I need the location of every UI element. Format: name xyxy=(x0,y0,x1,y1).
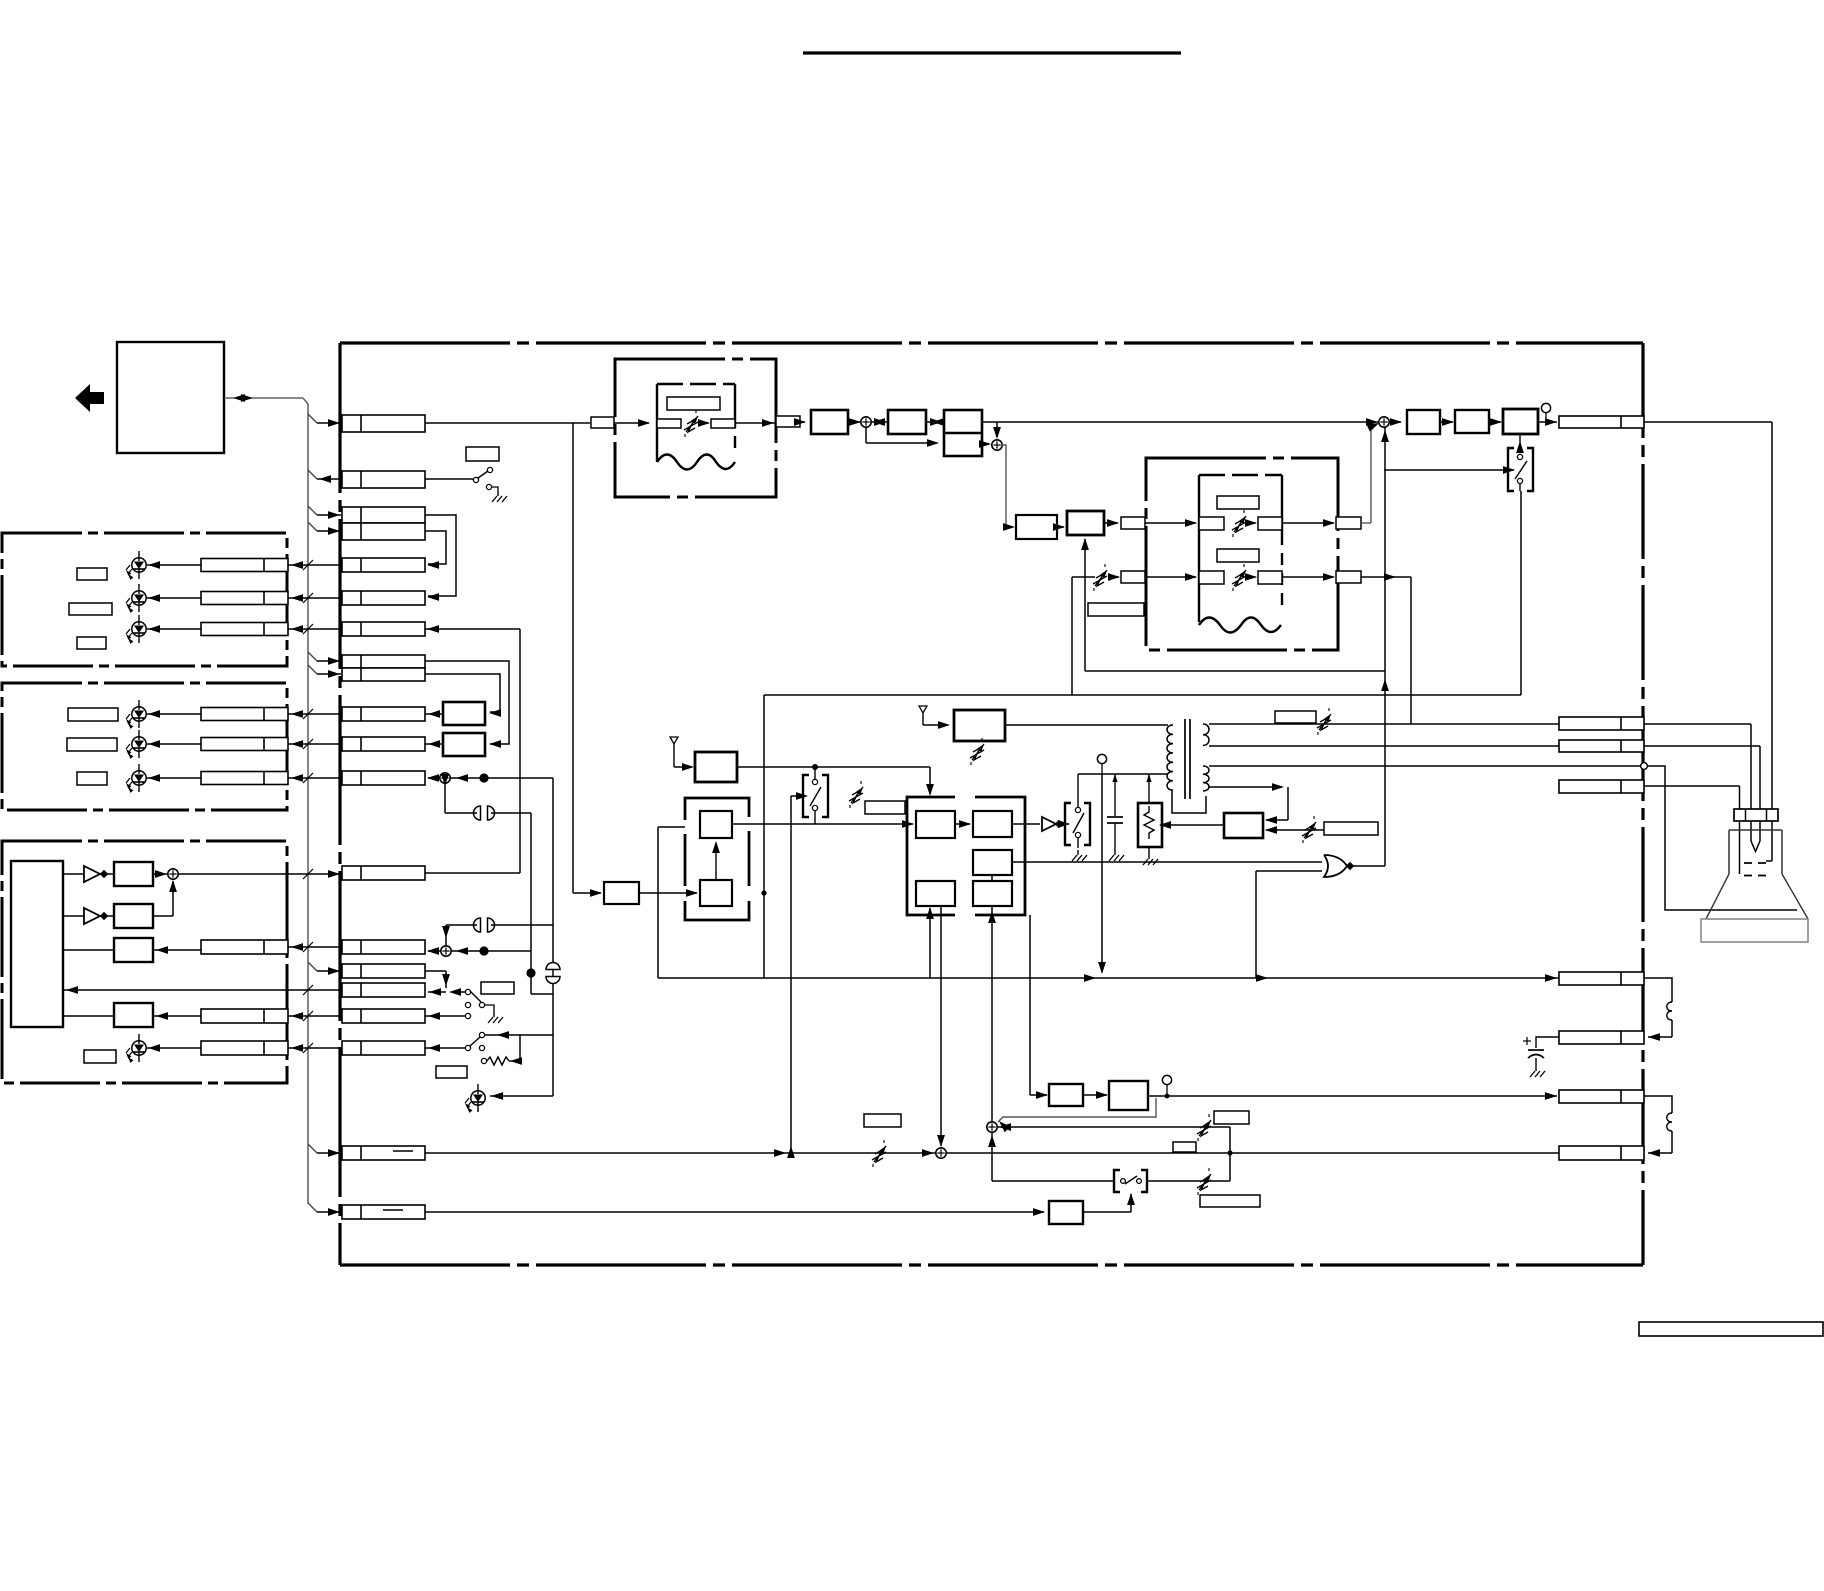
wire into tuner2 row1 xyxy=(1145,522,1196,524)
attenuator AT5 xyxy=(1319,714,1331,730)
attenuator AT4 xyxy=(1304,822,1316,838)
connector J13 xyxy=(342,964,425,978)
antenna ANT2 xyxy=(919,706,927,713)
connector J9 xyxy=(342,737,425,751)
connector J7a xyxy=(342,655,425,668)
wire row2 to RF line xyxy=(1361,576,1411,578)
connector J18 xyxy=(342,1205,425,1219)
wire into tuner2 row2 xyxy=(1145,576,1196,578)
left board1 connector P2 xyxy=(201,592,288,605)
wire S8 in2 xyxy=(998,1126,1230,1128)
wire SW7 right xyxy=(1147,1180,1230,1182)
choke coil L2 xyxy=(1667,1113,1672,1131)
IF amp box xyxy=(811,410,848,434)
connector CN-V2 xyxy=(1559,1146,1644,1160)
S8 label box xyxy=(1214,1111,1249,1124)
v-out box 1 xyxy=(1049,1084,1083,1106)
bus jog into J17 xyxy=(308,1144,317,1153)
left board2 connector P5 xyxy=(201,738,288,751)
wire video out to J-CRT xyxy=(1538,421,1557,423)
block box B4 xyxy=(114,1003,153,1027)
AFT label box xyxy=(1088,603,1144,616)
wire LED D1 xyxy=(147,564,201,566)
H out box xyxy=(1455,410,1489,433)
SW5 ground xyxy=(493,1012,495,1017)
wire S8 bottom xyxy=(991,1133,993,1181)
left board2 label L5 xyxy=(67,738,117,751)
tuner2 variable cap VC3 xyxy=(1234,570,1246,586)
bus jog into J3b xyxy=(308,522,317,531)
left board2 connector P4 xyxy=(201,708,288,721)
attenuator AT3 xyxy=(851,787,863,803)
wire 3DNR out xyxy=(1104,522,1118,524)
wire board edge row 778 xyxy=(288,777,342,779)
bus jog into J7a xyxy=(308,652,317,661)
audio riser 1 xyxy=(552,778,554,1096)
off-page arrow xyxy=(75,384,104,412)
audio amp box AU1 xyxy=(443,702,485,725)
flyback core xyxy=(1184,719,1186,799)
wire B1 to sum xyxy=(153,873,167,875)
sum node S7 xyxy=(936,1148,946,1158)
wire into J14 xyxy=(428,991,446,993)
CRT funnel xyxy=(1706,874,1729,919)
RF amp box xyxy=(695,752,737,782)
tuner1 variable cap VC1 xyxy=(686,416,698,432)
tuner2 outline xyxy=(1146,458,1338,650)
connector J1 xyxy=(342,415,425,432)
block box B2 xyxy=(114,904,153,928)
antenna ANT1 xyxy=(670,737,678,744)
CRT grid dashes xyxy=(1744,862,1771,864)
AV switch SW2 xyxy=(1065,803,1071,845)
sandcastle line xyxy=(764,694,1521,696)
bottom right label box xyxy=(1639,1322,1823,1336)
connector J16 xyxy=(342,1041,425,1055)
IC apc box xyxy=(973,881,1012,906)
audio amp box AU2 xyxy=(443,733,485,756)
connector J11 xyxy=(342,866,425,880)
HV node on border xyxy=(1641,763,1648,770)
wire J3b loop xyxy=(425,531,446,564)
wire J15 row xyxy=(288,1015,342,1017)
wire S3 to comb xyxy=(1002,445,1013,527)
wire board edge row 744 xyxy=(288,743,342,745)
connector J6 xyxy=(342,622,425,636)
main board border bottom xyxy=(340,1263,1643,1266)
wire LED D2 xyxy=(147,597,201,599)
sum node S2 xyxy=(861,417,871,427)
wire TR to buffer xyxy=(1012,823,1040,825)
wire S6 to J12 xyxy=(428,950,441,952)
tuner2 mixer box row2 xyxy=(1199,571,1224,584)
PLL vco box xyxy=(700,811,732,838)
wire TL-TR xyxy=(955,823,970,825)
wire comb to 3D xyxy=(1057,526,1064,528)
comb filter box xyxy=(1016,515,1057,539)
wire to H out xyxy=(1440,421,1453,423)
main board border left xyxy=(338,343,341,1265)
bus wire from external box xyxy=(224,397,303,399)
sum node S3 xyxy=(992,440,1002,450)
bus jog into J7b xyxy=(308,665,317,674)
wire LED D6 xyxy=(147,777,201,779)
wire B2 to S1 xyxy=(153,915,173,917)
left board1 label L2 xyxy=(69,603,112,615)
electrolytic cap C2 xyxy=(1536,1037,1559,1048)
wire SW6 feed xyxy=(485,1034,520,1036)
connector J18 polarity tick xyxy=(383,1209,403,1211)
node dot D-audio xyxy=(479,773,488,782)
tuner2 osc box row1 xyxy=(1258,517,1282,530)
wire controller to A2 xyxy=(63,915,72,917)
SAW filter box xyxy=(604,882,639,904)
CRT electron gun xyxy=(1750,821,1752,841)
wire wiper xyxy=(1160,824,1224,826)
AT4 label box xyxy=(1324,822,1378,835)
title underline xyxy=(803,51,1181,54)
wire to CRT cathode xyxy=(1644,421,1772,423)
wire chroma out to S3 xyxy=(982,443,989,445)
left board3 connector P9 xyxy=(201,1041,288,1055)
wire det to Y/C xyxy=(926,421,944,423)
cap C2 ground xyxy=(1535,1066,1537,1071)
wire J1 to tuner input xyxy=(425,422,590,424)
bus jog into J18 xyxy=(308,1203,317,1212)
variable res feed row2 xyxy=(1072,576,1095,578)
LED D2 xyxy=(132,591,146,605)
H-AFC line xyxy=(425,1152,1559,1154)
LED D4 xyxy=(132,707,146,721)
ABL box xyxy=(1224,813,1263,838)
function switch SW5 xyxy=(465,989,470,994)
sum node S8 xyxy=(987,1122,997,1132)
LED D3 xyxy=(132,622,146,636)
SW1 ground xyxy=(497,491,499,496)
flyback primary coil xyxy=(1167,725,1173,790)
wire LED D5 xyxy=(147,743,201,745)
left board 3 outline xyxy=(2,841,287,1083)
wire J16 row xyxy=(288,1047,342,1049)
LED D5 xyxy=(132,737,146,751)
OR gate G1 xyxy=(1324,855,1347,877)
wire LED D7 xyxy=(147,1047,201,1049)
tuner1 inner module xyxy=(656,384,658,462)
connector J8 xyxy=(342,707,425,721)
connector tuner2 out2 xyxy=(1336,571,1361,583)
video buffer A3 xyxy=(1042,817,1056,831)
service switch SW1 label xyxy=(466,447,499,461)
wire S4 to H-driver xyxy=(1390,421,1401,423)
IC chroma box xyxy=(973,811,1012,837)
tuner2 label row1 xyxy=(1217,496,1259,509)
connector tuner1 in xyxy=(591,417,614,428)
G2 wire xyxy=(1209,786,1282,788)
connector J15 xyxy=(342,1009,425,1023)
wire J12 row xyxy=(288,946,342,948)
V-ramp box xyxy=(1049,1201,1083,1224)
wire G1 to CRT xyxy=(1644,785,1740,787)
buffer amp A2 xyxy=(84,908,100,924)
IC sync box xyxy=(973,850,1012,875)
connector J2 xyxy=(342,471,425,488)
wire AFC to IC agc xyxy=(929,908,931,978)
mute switch SW3 xyxy=(1508,448,1514,491)
vco feedback gray xyxy=(998,1098,1156,1122)
PLL div box xyxy=(700,880,732,906)
left board 1 outline xyxy=(2,533,287,666)
connector J12 xyxy=(342,940,425,954)
wire SW7 left xyxy=(992,1180,1114,1182)
test point TP1 xyxy=(1541,403,1550,412)
reset switch SW6 xyxy=(465,1045,470,1050)
tuner1 osc box xyxy=(711,419,735,428)
wire RF conv out xyxy=(1005,724,1168,726)
left board3 label L7 xyxy=(84,1050,116,1063)
jungle IC outline xyxy=(907,797,955,830)
main board border right xyxy=(1641,343,1644,1265)
wire board edge row 629 xyxy=(288,628,342,630)
node dot D3 xyxy=(526,968,535,977)
tuner1 inner label xyxy=(667,397,720,410)
connector J3a xyxy=(342,507,425,523)
left board1 connector P1 xyxy=(201,559,288,572)
bus jog into J13 xyxy=(308,962,317,971)
HV wire xyxy=(1209,765,1641,767)
wire J11 to riser xyxy=(425,872,520,874)
block box B3 xyxy=(114,938,153,962)
connector CN-D2 xyxy=(1559,1031,1644,1044)
connector CN-H1 xyxy=(1559,717,1644,730)
heater label box xyxy=(1275,711,1316,723)
external box xyxy=(117,342,224,453)
left board1 label L1 xyxy=(77,568,107,580)
service switch SW1 xyxy=(425,478,473,480)
video out box xyxy=(1503,409,1538,434)
SW2 ground xyxy=(1077,850,1079,855)
sum node S6 xyxy=(441,946,451,956)
wire vramp to SW7 xyxy=(1083,1211,1131,1213)
flyback secondary 1 xyxy=(1203,724,1209,745)
connector CN-V1 xyxy=(1559,1090,1644,1103)
video det box xyxy=(888,410,926,434)
attenuator AT9 xyxy=(1199,1174,1211,1190)
left board3 connector P7 xyxy=(201,940,288,954)
wire ABL in2 xyxy=(1266,829,1324,831)
deflection loop 2 xyxy=(1644,1096,1672,1113)
connector tuner1 out xyxy=(776,416,800,427)
heater wire 2 xyxy=(1209,745,1559,747)
flyback primary return xyxy=(1172,790,1206,813)
connector J14 xyxy=(342,983,425,997)
wire tuner2 row1 out xyxy=(1282,522,1334,524)
node N2 xyxy=(996,422,998,437)
band switch SW4 xyxy=(803,775,809,817)
wire AT2 to connector xyxy=(1110,576,1119,578)
attenuator AT8 xyxy=(1199,1120,1211,1136)
wire tuner2 row2 out xyxy=(1282,576,1334,578)
connector J4 xyxy=(342,558,425,572)
controller box xyxy=(11,861,63,1027)
test point TP2 xyxy=(1097,754,1106,763)
SW4 select riser xyxy=(790,796,792,1153)
Y/C block box xyxy=(944,410,982,456)
wire tuner1 out xyxy=(735,422,775,424)
H driver box xyxy=(1407,410,1440,434)
video bus wire xyxy=(982,421,1379,423)
AFC bus xyxy=(658,977,1559,979)
connector J5 xyxy=(342,591,425,605)
wire board edge row 598 xyxy=(288,597,342,599)
wire N1 to SAW box xyxy=(573,892,601,894)
sum node S1 xyxy=(168,869,178,879)
tuner1 mixer box xyxy=(657,419,681,428)
choke coil L1 xyxy=(1667,1002,1672,1020)
cap C1 xyxy=(1114,774,1116,816)
screen pot ground xyxy=(1148,854,1150,859)
bus jog into J3a xyxy=(308,506,317,515)
buffer amp A1 xyxy=(84,866,100,882)
SW5 label box xyxy=(481,982,514,994)
main board border top xyxy=(340,341,1643,344)
wire AU1 to J8 xyxy=(425,713,443,715)
connector J3b xyxy=(342,523,425,540)
screen pot box xyxy=(1138,803,1162,847)
wire IF to sum S2 xyxy=(848,421,860,423)
wire J16 stub xyxy=(425,1047,465,1049)
B+ rail xyxy=(1078,773,1168,775)
AT3 label box xyxy=(865,801,905,814)
wire J14 to controller xyxy=(63,989,342,991)
jack JK3 xyxy=(546,963,560,970)
wire S2 to chroma xyxy=(865,427,867,443)
bus jog out of J2 xyxy=(308,470,317,479)
power LED D8 xyxy=(471,1091,485,1105)
AFT riser xyxy=(1084,539,1086,671)
wire LED D4 xyxy=(147,713,201,715)
left board3 connector P8 xyxy=(201,1009,288,1023)
wire tuner2 row1 to sum S4 xyxy=(1361,522,1371,524)
IC video amp box xyxy=(916,811,955,838)
wire J13 branch xyxy=(425,970,446,972)
v-out box 2 xyxy=(1109,1081,1148,1110)
bus jog into J1 xyxy=(308,414,317,423)
LED D1 xyxy=(132,558,146,572)
jack JK2 xyxy=(474,918,481,932)
cap C1 ground xyxy=(1114,850,1116,855)
flyback secondary 2 xyxy=(1203,766,1209,791)
CRT pin connector xyxy=(1734,809,1778,821)
wire S5 to J10 xyxy=(428,777,440,779)
attenuator AT6 xyxy=(972,744,984,760)
tuner2 inner module xyxy=(1198,475,1200,622)
wire J7b loop xyxy=(425,674,500,712)
PLL container xyxy=(685,798,749,820)
3DNR box xyxy=(1067,511,1104,535)
connector J17 polarity tick xyxy=(393,1150,413,1152)
HV wire to CRT anode xyxy=(1647,766,1797,910)
wire S4 branch to SW3 xyxy=(1384,469,1514,471)
AFT line xyxy=(1085,670,1385,672)
tuner2 variable cap VC2 xyxy=(1234,516,1246,532)
tuner2 osc box row2 xyxy=(1258,571,1282,584)
connector CN-D1 xyxy=(1559,972,1644,985)
audio riser 2 xyxy=(530,813,532,994)
wire SW3 down xyxy=(1520,491,1522,695)
connector J7b xyxy=(342,668,425,681)
connector tuner2 in1 xyxy=(1121,517,1145,529)
connector tuner2 out1 xyxy=(1336,517,1361,529)
LED D7 xyxy=(132,1041,146,1055)
RF converter box xyxy=(954,710,1005,741)
wire heater to CRT 2 xyxy=(1644,745,1760,747)
wire riser2 join xyxy=(531,993,553,995)
node N1 junction xyxy=(572,423,574,893)
sync riser xyxy=(1384,427,1386,866)
SW6 label box xyxy=(436,1066,467,1078)
IC agc box xyxy=(916,881,955,906)
test point TP3 xyxy=(1162,1075,1171,1084)
attenuator AT2 xyxy=(1095,570,1107,586)
attenuator AT7 xyxy=(874,1146,886,1162)
wire J6 feed xyxy=(425,628,520,630)
wire board edge row 714 xyxy=(288,713,342,715)
wire to SW4 xyxy=(791,795,806,797)
wire div to vco xyxy=(715,843,717,880)
tuner2 mixer box row1 xyxy=(1199,517,1224,530)
vert sw box SW7 xyxy=(1114,1170,1120,1192)
tuner2 label row2 xyxy=(1217,549,1259,562)
junction 1230-1153 xyxy=(1227,1150,1232,1155)
node dot D2 xyxy=(479,946,488,955)
CRT base xyxy=(1701,919,1808,942)
sum node S5 xyxy=(440,773,450,783)
wire S2 video det xyxy=(872,421,888,423)
wire J7a loop xyxy=(425,661,509,744)
connector CN-H2 xyxy=(1559,740,1644,752)
wire RF amp to IC xyxy=(737,766,930,768)
connector J10 xyxy=(342,771,425,785)
wire AU2 to J9 xyxy=(425,743,443,745)
wire ANT2 to box xyxy=(923,724,948,726)
connector J17 xyxy=(342,1146,425,1160)
LED D6 xyxy=(132,771,146,785)
wire heater to CRT 1 xyxy=(1644,723,1751,725)
wire ref to PLL xyxy=(658,826,685,828)
sum node S4 xyxy=(1379,417,1389,427)
left board2 label L6 xyxy=(77,772,107,785)
left board2 label L4 xyxy=(68,708,118,721)
left board1 connector P3 xyxy=(201,623,288,636)
V-ramp line xyxy=(425,1211,1044,1213)
wire vco to IC xyxy=(732,823,913,825)
focus line down xyxy=(1101,774,1103,972)
wire PLL input xyxy=(639,892,697,894)
wire agc down xyxy=(940,906,942,1146)
wire ANT1 to RF amp xyxy=(674,766,692,768)
wire to video out xyxy=(1489,421,1501,423)
block box B1 xyxy=(114,862,153,886)
attn bus riser xyxy=(1229,1127,1231,1181)
wire vert out xyxy=(1148,1095,1557,1097)
wire x1030 drop xyxy=(1029,915,1031,1095)
connector CN-V xyxy=(1559,416,1644,428)
wire afc to OR xyxy=(1256,870,1322,872)
resistor R1 xyxy=(481,1058,486,1063)
AT9 label box xyxy=(1200,1195,1260,1207)
wire board edge row 565 xyxy=(288,564,342,566)
tuner1 outline xyxy=(615,359,776,497)
